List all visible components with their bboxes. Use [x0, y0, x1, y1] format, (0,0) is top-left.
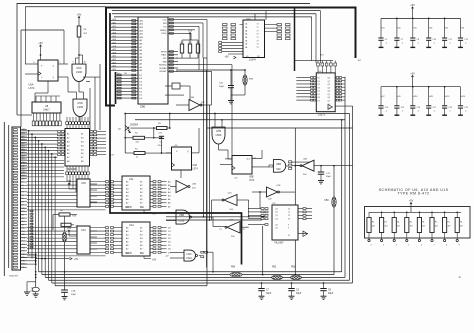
svg-text:U9B: U9B — [276, 163, 281, 166]
svg-text:U15: U15 — [81, 182, 86, 185]
svg-text:D1: D1 — [22, 185, 24, 187]
svg-text:.1: .1 — [417, 43, 419, 45]
svg-text:+5V: +5V — [38, 42, 43, 45]
svg-text:11: 11 — [288, 212, 290, 214]
svg-text:U13: U13 — [446, 96, 449, 98]
svg-text:C17: C17 — [433, 107, 436, 109]
svg-text:U5D: U5D — [77, 101, 82, 105]
svg-text:C8: C8 — [257, 56, 259, 58]
svg-text:P36: P36 — [22, 247, 25, 249]
svg-text:D6: D6 — [22, 201, 24, 203]
svg-text:C8: C8 — [417, 39, 419, 41]
svg-text:A15: A15 — [113, 35, 116, 38]
svg-text:FB3: FB3 — [291, 267, 296, 269]
svg-text:U10: U10 — [414, 96, 417, 98]
svg-text:47uF: 47uF — [30, 291, 36, 293]
svg-text:9: 9 — [288, 228, 289, 230]
svg-text:D7: D7 — [318, 100, 320, 102]
svg-text:C18: C18 — [448, 107, 451, 109]
svg-text:.1: .1 — [401, 110, 403, 112]
svg-text:2K2: 2K2 — [180, 42, 183, 44]
svg-text:U3: U3 — [414, 28, 416, 30]
svg-text:2: 2 — [371, 245, 372, 247]
svg-text:30pF: 30pF — [266, 293, 272, 295]
svg-text:.1: .1 — [465, 43, 467, 45]
svg-text:.1: .1 — [465, 110, 467, 112]
svg-text:+5V: +5V — [74, 259, 79, 261]
svg-text:U12: U12 — [81, 229, 86, 232]
svg-text:A1b: A1b — [113, 38, 116, 41]
svg-text:A13: A13 — [113, 28, 116, 31]
svg-text:U11: U11 — [430, 96, 433, 98]
svg-text:U5B: U5B — [249, 177, 254, 179]
svg-text:4k7: 4k7 — [448, 225, 451, 227]
svg-text:+5V: +5V — [152, 214, 157, 216]
svg-text:74LS245: 74LS245 — [67, 168, 78, 171]
svg-text:9: 9 — [459, 245, 460, 247]
svg-text:Q2: Q2 — [328, 84, 330, 86]
svg-text:D0: D0 — [22, 182, 24, 184]
svg-text:RL: RL — [372, 222, 374, 224]
svg-text:C1B: C1B — [71, 291, 76, 293]
svg-text:D6: D6 — [318, 97, 320, 99]
svg-text:U2B: U2B — [192, 184, 197, 186]
svg-text:510: 510 — [276, 168, 281, 171]
svg-text:C5: C5 — [385, 39, 387, 41]
svg-text:D0: D0 — [318, 78, 320, 80]
svg-text:12: 12 — [288, 215, 290, 217]
svg-text:Q7: Q7 — [328, 100, 330, 102]
svg-text:.1: .1 — [417, 110, 419, 112]
svg-text:+5V: +5V — [152, 260, 157, 262]
svg-text:C19: C19 — [464, 107, 467, 109]
svg-text:U2: U2 — [398, 28, 400, 30]
svg-text:9: 9 — [288, 224, 289, 226]
svg-text:CEXCRT: CEXCRT — [9, 276, 19, 278]
svg-text:+5V: +5V — [67, 180, 72, 183]
svg-text:30pF: 30pF — [219, 86, 225, 88]
svg-text:D5: D5 — [22, 198, 24, 200]
svg-text:U2B: U2B — [303, 158, 308, 160]
svg-text:Q4: Q4 — [328, 91, 330, 93]
svg-text:LS373: LS373 — [318, 114, 326, 117]
svg-text:10: 10 — [288, 208, 290, 210]
svg-text:U9: U9 — [398, 96, 400, 98]
svg-text:Q3: Q3 — [328, 87, 330, 89]
svg-text:MREQ: MREQ — [160, 30, 167, 32]
svg-text:5: 5 — [60, 62, 61, 64]
svg-text:U11: U11 — [129, 178, 134, 181]
svg-text:.1: .1 — [449, 43, 451, 45]
svg-text:7: 7 — [434, 245, 435, 247]
svg-text:INT: INT — [22, 224, 25, 226]
svg-text:U1: U1 — [382, 28, 384, 30]
svg-text:A21: A21 — [113, 55, 116, 58]
svg-text:U5C: U5C — [76, 66, 81, 70]
svg-text:+5V: +5V — [410, 4, 415, 7]
svg-text:13: 13 — [288, 219, 290, 221]
svg-text:P37: P37 — [22, 251, 25, 253]
svg-text:BUSAK: BUSAK — [159, 67, 167, 70]
svg-text:D3: D3 — [318, 87, 320, 89]
svg-text:RL: RL — [460, 222, 462, 224]
svg-text:D1: D1 — [318, 81, 320, 83]
svg-text:6: 6 — [421, 245, 422, 247]
svg-text:D7: D7 — [22, 205, 24, 207]
svg-text:U6: U6 — [462, 28, 464, 30]
svg-text:BUSRQ: BUSRQ — [159, 65, 167, 67]
svg-text:D2: D2 — [22, 188, 24, 190]
svg-text:NMI: NMI — [22, 228, 26, 230]
svg-text:+5V: +5V — [67, 227, 72, 230]
svg-text:Q1: Q1 — [328, 81, 330, 83]
svg-text:WR: WR — [163, 23, 167, 25]
svg-text:A24: A24 — [113, 65, 116, 68]
svg-text:LS00: LS00 — [76, 70, 83, 74]
svg-text:4: 4 — [396, 245, 397, 247]
svg-text:.1: .1 — [385, 43, 387, 45]
svg-text:4k7: 4k7 — [460, 225, 463, 227]
svg-text:9: 9 — [73, 62, 74, 64]
svg-text:+5V: +5V — [410, 73, 415, 76]
svg-text:FB1: FB1 — [325, 200, 330, 202]
svg-text:RFSH: RFSH — [161, 51, 167, 53]
svg-text:LS74: LS74 — [29, 87, 35, 90]
svg-text:4k7: 4k7 — [410, 225, 413, 227]
svg-text:C13: C13 — [464, 39, 467, 41]
svg-text:4k7: 4k7 — [435, 225, 438, 227]
svg-text:A17: A17 — [113, 41, 116, 44]
svg-text:30pF: 30pF — [296, 293, 302, 295]
svg-text:D3: D3 — [22, 192, 24, 194]
svg-text:U7B: U7B — [216, 129, 221, 133]
svg-text:+5V: +5V — [72, 216, 77, 218]
svg-text:2K2: 2K2 — [196, 42, 199, 44]
svg-text:L574: L574 — [193, 169, 199, 171]
svg-text:30pF: 30pF — [326, 176, 332, 178]
svg-text:D4: D4 — [22, 195, 24, 197]
svg-text:30pF: 30pF — [71, 294, 77, 296]
svg-text:C7: C7 — [401, 39, 403, 41]
svg-text:U14: U14 — [129, 224, 134, 227]
svg-text:HALT: HALT — [161, 54, 167, 57]
svg-text:C10: C10 — [433, 39, 436, 41]
svg-text:74LS367: 74LS367 — [274, 242, 284, 245]
svg-text:A2D: A2D — [113, 51, 117, 54]
svg-text:A19: A19 — [113, 48, 116, 51]
svg-text:A11: A11 — [113, 22, 116, 25]
svg-text:+5V: +5V — [225, 57, 230, 59]
svg-text:P42: P42 — [22, 267, 25, 269]
svg-text:13: 13 — [219, 229, 221, 231]
svg-text:RL: RL — [435, 222, 437, 224]
svg-text:C11: C11 — [448, 39, 451, 41]
svg-text:.1: .1 — [433, 43, 435, 45]
svg-text:A15: A15 — [22, 177, 25, 180]
svg-text:RL: RL — [410, 222, 412, 224]
svg-text:+5V: +5V — [188, 30, 193, 33]
svg-text:D4: D4 — [318, 91, 320, 93]
svg-text:4k7: 4k7 — [372, 225, 375, 227]
svg-text:2K2: 2K2 — [188, 42, 191, 44]
svg-text:L500: L500 — [216, 133, 222, 137]
svg-text:C14: C14 — [385, 107, 388, 109]
svg-text:2N3904: 2N3904 — [130, 124, 139, 126]
svg-text:.1: .1 — [433, 110, 435, 112]
svg-text:RESET: RESET — [160, 71, 168, 73]
svg-text:RL: RL — [397, 222, 399, 224]
svg-text:4k7: 4k7 — [385, 225, 388, 227]
svg-text:C15: C15 — [401, 107, 404, 109]
svg-text:+5V: +5V — [77, 14, 82, 17]
svg-text:HLT: HLT — [22, 241, 25, 243]
svg-text:CLK: CLK — [162, 19, 167, 21]
svg-text:C16: C16 — [417, 107, 420, 109]
svg-text:U14: U14 — [462, 96, 465, 98]
svg-text:U5: U5 — [446, 28, 448, 30]
svg-text:4k7: 4k7 — [397, 225, 400, 227]
svg-text:+5V: +5V — [409, 200, 414, 203]
svg-text:L512: L512 — [186, 257, 192, 260]
svg-text:C0: C0 — [246, 56, 248, 58]
svg-text:Q5: Q5 — [328, 94, 330, 96]
svg-text:TYPE RM 8-472: TYPE RM 8-472 — [398, 192, 430, 196]
svg-text:A23: A23 — [113, 61, 116, 64]
svg-text:A25: A25 — [113, 68, 116, 71]
svg-text:Q0: Q0 — [328, 78, 330, 80]
svg-text:.1: .1 — [449, 110, 451, 112]
svg-text:U6C: U6C — [187, 253, 192, 256]
svg-text:D5: D5 — [318, 94, 320, 96]
svg-text:NMI: NMI — [163, 61, 167, 63]
svg-text:U2A: U2A — [190, 96, 195, 99]
svg-text:U1B: U1B — [193, 165, 198, 167]
svg-text:L574: L574 — [249, 180, 255, 182]
svg-text:5: 5 — [408, 245, 409, 247]
svg-text:.1: .1 — [401, 43, 403, 45]
svg-text:FB2: FB2 — [272, 267, 277, 269]
svg-text:U7: U7 — [382, 96, 384, 98]
svg-text:Z80: Z80 — [140, 105, 146, 109]
svg-text:8: 8 — [446, 245, 447, 247]
svg-text:U4: U4 — [430, 28, 432, 30]
svg-text:15: 15 — [288, 235, 290, 237]
svg-text:RL: RL — [385, 222, 387, 224]
svg-text:A12: A12 — [113, 25, 116, 28]
svg-text:3: 3 — [383, 245, 384, 247]
svg-text:A22: A22 — [113, 58, 116, 61]
svg-text:12: 12 — [243, 229, 245, 231]
svg-text:+5V: +5V — [75, 226, 79, 228]
svg-text:A14: A14 — [113, 31, 116, 34]
svg-text:D2: D2 — [318, 84, 320, 86]
svg-text:30pF: 30pF — [328, 293, 334, 295]
svg-text:Q6: Q6 — [328, 97, 330, 99]
svg-text:4k7: 4k7 — [422, 225, 425, 227]
svg-text:RST: RST — [22, 231, 25, 233]
svg-text:.1: .1 — [385, 110, 387, 112]
svg-text:MRQ: MRQ — [22, 208, 27, 210]
svg-text:U2E: U2E — [277, 185, 282, 187]
svg-text:24bL7: 24bL7 — [43, 109, 50, 111]
svg-text:FB4: FB4 — [231, 267, 236, 269]
svg-text:LS244: LS244 — [249, 59, 256, 61]
svg-text:LS00: LS00 — [77, 105, 84, 109]
svg-text:RL: RL — [422, 222, 424, 224]
svg-text:RL: RL — [448, 222, 450, 224]
svg-text:U2C: U2C — [228, 193, 233, 195]
svg-text:RD: RD — [163, 26, 167, 28]
svg-text:47uF: 47uF — [158, 145, 163, 147]
svg-text:IORQ: IORQ — [161, 33, 167, 35]
svg-text:A1D: A1D — [113, 18, 117, 21]
